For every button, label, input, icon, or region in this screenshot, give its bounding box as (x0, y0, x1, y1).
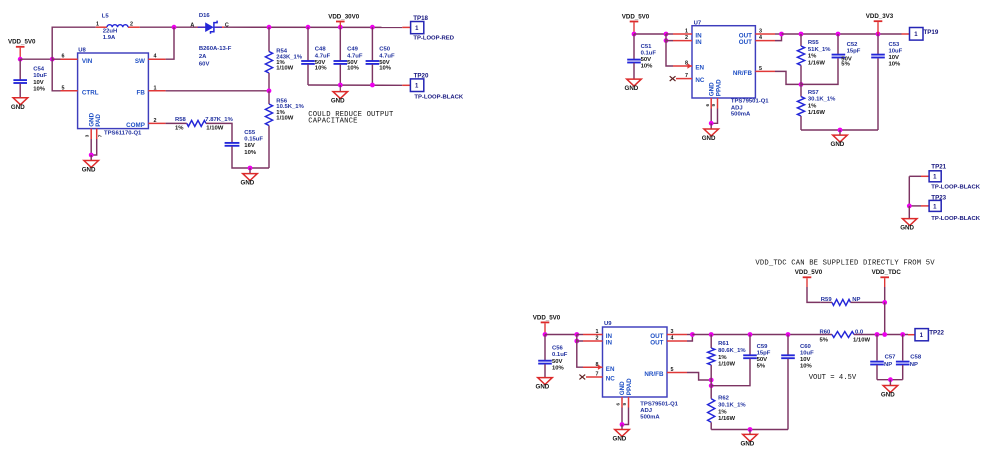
svg-text:1: 1 (415, 26, 419, 32)
wire TP18 stub (402, 26, 410, 28)
svg-text:7.87K_1%: 7.87K_1% (205, 117, 233, 123)
svg-text:NP: NP (884, 362, 892, 368)
wire (884, 278, 886, 287)
wire EN (666, 41, 673, 66)
svg-text:GND: GND (900, 225, 914, 232)
wire C56 bottom lead (544, 364, 546, 377)
resistor R54 (265, 48, 302, 73)
svg-text:10uF: 10uF (33, 73, 47, 79)
wire CTRL (52, 59, 60, 91)
ground (TP21/TP23) (900, 219, 917, 232)
wire U8 GND pin (90, 139, 92, 155)
wire R54 top lead (268, 27, 270, 51)
wire OUT2 (775, 34, 782, 41)
node VIN branch (50, 57, 55, 62)
wire gnd stem (249, 168, 251, 173)
svg-text:1/10W: 1/10W (276, 66, 293, 72)
node R61 top (709, 332, 714, 337)
svg-text:5: 5 (759, 66, 762, 72)
wire (20, 58, 52, 60)
wire R61-R62 link (710, 365, 712, 399)
svg-text:GND: GND (536, 384, 550, 391)
svg-text:1%: 1% (175, 125, 184, 131)
wire IN1 (666, 33, 673, 35)
svg-text:6: 6 (705, 104, 710, 107)
svg-text:TP-LOOP-BLACK: TP-LOOP-BLACK (931, 185, 981, 191)
resistor R61 (708, 341, 747, 367)
wire C48 bottom lead (307, 64, 309, 85)
svg-text:10V: 10V (800, 357, 811, 363)
wire TP22 stub (908, 334, 915, 336)
capacitor C51 (627, 44, 656, 69)
wire C60 top lead (787, 335, 789, 356)
wire C48 top lead (307, 27, 309, 61)
wire TP19 stub (902, 33, 911, 35)
wire (19, 48, 21, 60)
wire (877, 379, 903, 381)
wire R56 bottom lead (268, 126, 270, 169)
wire (339, 22, 341, 27)
node FB / R54 / R56 (267, 88, 272, 93)
svg-text:EN: EN (695, 65, 704, 72)
wire VOUT rail (692, 334, 832, 336)
svg-text:C54: C54 (33, 66, 45, 72)
svg-text:CAPACITANCE: CAPACITANCE (308, 118, 357, 126)
node GND tap (338, 83, 343, 88)
wire gnd stem (889, 380, 891, 386)
wire (633, 22, 635, 34)
node U9 ground (620, 422, 625, 427)
node U8 ground (89, 153, 94, 158)
svg-text:C57: C57 (885, 355, 897, 361)
svg-text:10%: 10% (641, 63, 654, 69)
svg-text:500mA: 500mA (731, 112, 751, 118)
svg-text:TP-LOOP-BLACK: TP-LOOP-BLACK (931, 216, 981, 222)
node C57 top (875, 332, 880, 337)
svg-text:OUT: OUT (739, 39, 752, 46)
wire VIN (52, 58, 60, 60)
svg-text:NC: NC (606, 376, 616, 383)
node R55/R57 divider (799, 82, 804, 87)
svg-text:VDD_30V0: VDD_30V0 (328, 13, 360, 20)
capacitor C55 (225, 130, 264, 156)
svg-text:4: 4 (154, 54, 157, 60)
svg-text:U7: U7 (694, 20, 702, 26)
svg-text:VDD_5V0: VDD_5V0 (795, 269, 823, 276)
svg-text:50V: 50V (641, 57, 652, 63)
wire C52 top lead (837, 34, 839, 54)
wire to R59 (807, 287, 821, 302)
capacitor C58 (896, 355, 922, 369)
power VDD_3V3 (866, 13, 894, 22)
svg-text:10uF: 10uF (889, 48, 903, 54)
wire R56 top lead (268, 91, 270, 104)
svg-text:80.6K_1%: 80.6K_1% (718, 348, 746, 354)
svg-text:60V: 60V (199, 62, 210, 68)
wire C53 bottom lead (877, 58, 879, 130)
svg-text:ADJ: ADJ (731, 105, 743, 111)
svg-text:U9: U9 (604, 321, 612, 327)
wire R57 top lead (800, 84, 802, 96)
svg-text:IN: IN (606, 340, 613, 347)
svg-text:10%: 10% (552, 366, 565, 372)
svg-text:GND: GND (831, 141, 845, 148)
ground (R62/C60) (741, 434, 758, 447)
svg-text:B260A-13-F: B260A-13-F (199, 46, 232, 52)
wire C51 bottom lead (633, 63, 635, 79)
svg-text:IN: IN (695, 39, 702, 46)
node OUT join (779, 32, 784, 37)
capacitor C54 (13, 66, 47, 92)
ground (R57/C53) (831, 135, 848, 148)
svg-text:22uH: 22uH (103, 29, 117, 35)
svg-text:GND: GND (241, 180, 255, 187)
svg-text:PAD: PAD (95, 114, 102, 127)
test point TP19 (910, 28, 939, 41)
wire C52 bottom lead (801, 58, 838, 84)
svg-text:10V: 10V (33, 80, 44, 86)
wire gnd stem (710, 123, 712, 129)
svg-text:5%: 5% (757, 364, 766, 370)
svg-text:50V: 50V (757, 357, 768, 363)
ground (C56) (536, 378, 553, 391)
wire gnd stem (839, 130, 841, 135)
node IN2 branch (664, 38, 669, 43)
svg-text:C55: C55 (244, 130, 256, 136)
svg-text:TP23: TP23 (931, 195, 946, 202)
svg-text:C58: C58 (910, 355, 922, 361)
svg-text:1%: 1% (808, 54, 817, 60)
svg-text:R55: R55 (808, 40, 820, 46)
svg-text:TPS79501-Q1: TPS79501-Q1 (640, 401, 678, 407)
svg-text:1/16W: 1/16W (808, 110, 825, 116)
wire (140, 26, 197, 28)
power VDD_5V0 (circuit 2) (622, 13, 650, 22)
svg-text:C51: C51 (641, 44, 653, 50)
svg-text:ADJ: ADJ (640, 408, 652, 414)
svg-text:PPAD: PPAD (715, 79, 722, 96)
svg-text:10%: 10% (33, 86, 46, 92)
resistor R56 (265, 98, 304, 125)
wire (308, 84, 402, 86)
svg-text:VDD_3V3: VDD_3V3 (866, 13, 894, 20)
ground (output caps) (331, 92, 348, 105)
svg-text:6: 6 (616, 403, 621, 406)
wire C59 top lead (749, 335, 751, 356)
wire NR/FB (687, 373, 711, 381)
svg-text:1/10W: 1/10W (206, 125, 223, 131)
svg-text:R62: R62 (718, 395, 730, 401)
svg-text:5: 5 (62, 85, 65, 91)
svg-text:4: 4 (671, 336, 674, 342)
svg-text:4.7uF: 4.7uF (379, 54, 395, 60)
svg-text:2: 2 (154, 118, 157, 124)
svg-text:OUT: OUT (650, 340, 663, 347)
svg-text:2: 2 (130, 22, 133, 28)
wire IN1 (577, 334, 583, 336)
svg-text:1: 1 (920, 333, 924, 339)
svg-text:R58: R58 (175, 117, 187, 123)
svg-text:SW: SW (135, 58, 145, 65)
svg-text:2: 2 (685, 35, 688, 41)
svg-text:GND: GND (708, 82, 715, 96)
wire COMP (166, 122, 187, 124)
svg-text:5%: 5% (820, 337, 829, 343)
node GND tap (C55/R56) (248, 166, 253, 171)
svg-text:VIN: VIN (82, 58, 93, 65)
wire OUT1 (687, 334, 692, 336)
node C50 top (370, 25, 375, 30)
node C48 top (306, 25, 311, 30)
svg-text:0.1uF: 0.1uF (641, 50, 657, 56)
resistor R57 (797, 90, 836, 116)
svg-text:1/16W: 1/16W (808, 61, 825, 67)
svg-text:1%: 1% (808, 103, 817, 109)
svg-text:VDD_5V0: VDD_5V0 (622, 13, 650, 20)
svg-text:C60: C60 (800, 344, 812, 350)
svg-text:TP18: TP18 (413, 15, 428, 22)
inductor L5 (96, 13, 140, 41)
wire C60 bottom lead (787, 359, 789, 430)
svg-text:9: 9 (711, 104, 716, 107)
svg-text:1/10W: 1/10W (853, 337, 870, 343)
svg-text:1: 1 (154, 85, 157, 91)
node GND tap (R57/C53) (838, 128, 843, 133)
node C59 top (748, 332, 753, 337)
node VDD_5V0 / C56 (543, 332, 548, 337)
svg-text:GND: GND (82, 167, 96, 174)
wire TP21 stub (921, 175, 929, 177)
svg-text:10%: 10% (889, 61, 902, 67)
wire gnd stem (621, 425, 623, 430)
svg-text:1: 1 (596, 329, 599, 335)
svg-text:NR/FB: NR/FB (644, 371, 664, 378)
svg-text:TPS79501-Q1: TPS79501-Q1 (731, 98, 769, 104)
node VDD_TDC / R59 (882, 300, 887, 305)
node C53 / VDD_3V3 (876, 32, 881, 37)
svg-text:GND: GND (613, 436, 627, 443)
node TP23 / GND (907, 204, 912, 209)
svg-text:0.1uF: 0.1uF (552, 352, 568, 358)
svg-text:C52: C52 (847, 42, 859, 48)
svg-text:GND: GND (702, 135, 716, 142)
svg-text:TP-LOOP-RED: TP-LOOP-RED (413, 36, 454, 42)
wire C55 bottom (232, 146, 269, 168)
wire OUT1 (775, 33, 782, 35)
svg-text:GND: GND (741, 441, 755, 448)
svg-text:GND: GND (881, 392, 895, 399)
resistor R59 (821, 297, 861, 306)
svg-text:TP19: TP19 (924, 29, 939, 36)
capacitor C49 (334, 47, 363, 72)
power VDD_TDC (872, 269, 902, 278)
svg-text:7: 7 (596, 372, 599, 378)
svg-text:COMP: COMP (126, 122, 145, 129)
wire (711, 429, 788, 431)
node GND tap (R62/C60) (748, 427, 753, 432)
svg-text:EN: EN (606, 366, 615, 373)
node GND tap (C57/C58) (888, 377, 893, 382)
wire C50 bottom lead (371, 64, 373, 85)
wire gnd stem (339, 85, 341, 91)
svg-text:3: 3 (85, 134, 90, 137)
node divider mid (709, 383, 714, 388)
svg-text:TP-LOOP-BLACK: TP-LOOP-BLACK (414, 94, 464, 100)
svg-text:1: 1 (933, 204, 937, 210)
svg-text:GND: GND (625, 85, 639, 92)
svg-text:15pF: 15pF (757, 350, 771, 356)
svg-text:R61: R61 (718, 341, 730, 347)
capacitor C50 (366, 47, 395, 72)
capacitor C60 (781, 344, 814, 370)
wire U9 GND pin (621, 408, 623, 425)
wire C58 top lead (902, 335, 904, 361)
capacitor C56 (538, 346, 568, 372)
svg-text:50V: 50V (552, 359, 563, 365)
svg-text:TP22: TP22 (929, 329, 944, 336)
svg-text:7: 7 (685, 73, 688, 79)
wire R55 bottom lead (800, 65, 802, 84)
svg-text:1/16W: 1/16W (718, 416, 735, 422)
svg-text:FB: FB (137, 89, 146, 96)
svg-text:CTRL: CTRL (82, 89, 99, 96)
node IN2 branch (574, 339, 579, 344)
svg-text:10%: 10% (379, 66, 392, 72)
svg-text:500mA: 500mA (640, 415, 660, 421)
svg-text:NR/FB: NR/FB (733, 70, 753, 77)
node U7 ground (709, 121, 714, 126)
svg-text:R60: R60 (820, 329, 832, 335)
svg-text:1: 1 (933, 175, 937, 181)
svg-text:GND: GND (331, 98, 345, 105)
capacitor C59 (743, 344, 771, 370)
svg-text:30.1K_1%: 30.1K_1% (718, 403, 746, 409)
resistor R58 (175, 117, 234, 131)
svg-text:15pF: 15pF (847, 48, 861, 54)
ground (U9) (613, 430, 630, 443)
power VDD_5V0 (circuit 1) (8, 39, 36, 48)
wire TP23 stub (921, 205, 929, 207)
ground (U8) (82, 161, 99, 174)
svg-text:NC: NC (695, 77, 705, 84)
svg-text:NP: NP (910, 362, 918, 368)
ground (below C54) (11, 98, 28, 111)
svg-text:C59: C59 (757, 344, 769, 350)
svg-text:C50: C50 (379, 47, 391, 53)
wire C57 bottom lead (876, 365, 878, 380)
wire TP23 (909, 205, 921, 207)
svg-text:PPAD: PPAD (626, 378, 633, 395)
node VDD_5V0 / C51 (632, 32, 637, 37)
resistor R62 (708, 395, 747, 422)
svg-text:9: 9 (622, 403, 627, 406)
svg-text:2: 2 (596, 336, 599, 342)
svg-text:TPS61170-Q1: TPS61170-Q1 (104, 131, 142, 137)
svg-text:51K_1%: 51K_1% (808, 47, 831, 53)
wire SW riser (166, 27, 174, 59)
svg-text:C49: C49 (347, 47, 359, 53)
wire U7 GND pin (710, 109, 712, 124)
svg-text:16V: 16V (244, 143, 255, 149)
svg-text:1%: 1% (718, 410, 727, 416)
svg-text:4.7uF: 4.7uF (315, 54, 331, 60)
wire TP21/TP23 riser (908, 176, 910, 206)
wire C49 top lead (339, 27, 341, 61)
svg-text:1: 1 (685, 29, 688, 35)
node SW / L5-D16 (172, 25, 177, 30)
wire EN (577, 341, 583, 367)
wire U8 PAD pin (91, 139, 97, 155)
node R55 top (799, 32, 804, 37)
svg-text:1: 1 (914, 32, 918, 38)
wire C51 top lead (633, 34, 635, 59)
power VDD_5V0 (circuit 3) (533, 314, 561, 323)
diode D16 (190, 13, 231, 68)
svg-text:5%: 5% (841, 61, 850, 67)
svg-text:VOUT = 4.5V: VOUT = 4.5V (809, 374, 857, 382)
svg-text:C48: C48 (315, 47, 327, 53)
svg-text:VDD_5V0: VDD_5V0 (533, 314, 561, 321)
wire gnd stem (908, 206, 910, 219)
node NR/FB join (709, 378, 714, 383)
test point TP20 (410, 73, 464, 101)
wire C54 bottom lead (19, 84, 21, 98)
test point TP18 (411, 15, 454, 42)
wire IN2 (577, 335, 583, 342)
wire U7 PPAD pin (711, 109, 717, 124)
wire (801, 129, 878, 131)
svg-text:1%: 1% (718, 355, 727, 361)
test point TP21 (929, 164, 981, 191)
capacitor C53 (871, 42, 902, 67)
wire FB (166, 90, 269, 92)
wire OUT2 (687, 335, 692, 342)
node C60 top (786, 332, 791, 337)
svg-text:TP20: TP20 (414, 73, 429, 80)
test point TP23 (929, 195, 981, 222)
wire TP20 stub (402, 84, 410, 86)
no-connect X on U9 pin 7 (579, 375, 585, 380)
capacitor C57 (870, 355, 896, 369)
power VDD_30V0 (328, 13, 360, 22)
svg-text:0.15uF: 0.15uF (244, 137, 263, 143)
svg-text:C53: C53 (889, 42, 901, 48)
svg-text:VDD_TDC: VDD_TDC (872, 269, 902, 276)
wire R57 bottom lead (800, 116, 802, 130)
svg-text:U8: U8 (78, 48, 86, 54)
wire gnd stem (749, 430, 751, 435)
ground (C55/R56) (241, 174, 258, 187)
resistor R55 (797, 40, 831, 67)
node C50 bottom (370, 83, 375, 88)
wire C53 top lead (877, 34, 879, 54)
power VDD_5V0 (R59) (795, 269, 823, 278)
capacitor C52 (832, 42, 861, 67)
op-amp U8 TPS61170-Q1 (boost converter IC) (61, 48, 166, 139)
wire R59 left (821, 301, 832, 303)
ground (C51) (625, 79, 642, 92)
wire VDD_5V0 stem (806, 278, 808, 287)
svg-text:5: 5 (671, 367, 674, 373)
wire IN2 (666, 34, 673, 41)
svg-text:VDD_TDC CAN BE SUPPLIED DIRECT: VDD_TDC CAN BE SUPPLIED DIRECTLY FROM 5V (755, 259, 935, 267)
node VDD_5V0 / C54 (18, 57, 23, 62)
node IN branch (664, 32, 669, 37)
node C52 top (836, 32, 841, 37)
wire (634, 33, 666, 35)
svg-text:L5: L5 (102, 13, 110, 19)
svg-text:1/10W: 1/10W (276, 116, 293, 122)
